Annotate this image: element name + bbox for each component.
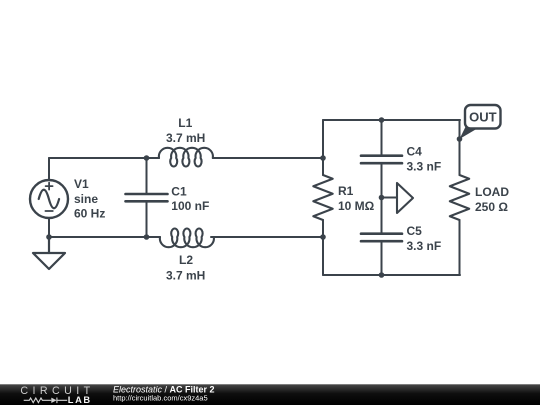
wire V1 bottom lead: [48, 218, 50, 237]
wire top-middle segment: [213, 157, 323, 159]
svg-text:V1: V1: [74, 177, 89, 191]
wire bottom-left segment: [49, 236, 160, 238]
capacitor C5: [361, 234, 402, 242]
footer bar: [0, 384, 540, 405]
capacitor C4: [361, 156, 402, 164]
node at C4 top rail: [379, 117, 385, 123]
svg-text:R1: R1: [338, 184, 354, 198]
svg-text:OUT: OUT: [469, 109, 497, 124]
wire C4 C5 branch: [381, 120, 383, 275]
svg-text:L2: L2: [179, 253, 193, 267]
wire top-left segment: [49, 157, 159, 159]
node at ground junction: [46, 234, 52, 240]
svg-text:L1: L1: [178, 116, 192, 130]
wire probe lead: [382, 197, 398, 199]
svg-text:sine: sine: [74, 192, 98, 206]
wire top rail: [323, 119, 460, 121]
logo diode arrow: [51, 398, 56, 403]
inductor L1: [159, 148, 213, 167]
inductor L2: [160, 229, 214, 248]
svg-text:3.7 mH: 3.7 mH: [166, 131, 205, 145]
node at C1 top: [144, 155, 150, 161]
capacitor C1: [126, 194, 168, 201]
logo resistor-diode line: [24, 398, 67, 404]
wire bottom rail: [323, 274, 460, 276]
svg-text:LAB: LAB: [68, 395, 92, 405]
wire V1 top lead: [48, 158, 50, 180]
node at probe junction: [379, 195, 385, 201]
voltage source V1 body: [30, 180, 68, 218]
svg-text:3.3 nF: 3.3 nF: [407, 160, 442, 174]
svg-text:LOAD: LOAD: [475, 185, 509, 199]
wire R1 branch: [322, 120, 324, 275]
svg-text:http://circuitlab.com/cx9z4a5: http://circuitlab.com/cx9z4a5: [113, 394, 208, 403]
svg-text:3.3 nF: 3.3 nF: [407, 239, 442, 253]
node at OUT: [457, 136, 463, 142]
svg-text:C1: C1: [171, 185, 187, 199]
node at R1 bottom: [320, 234, 326, 240]
wire C1 branch: [146, 158, 148, 237]
svg-text:10 MΩ: 10 MΩ: [338, 199, 375, 213]
svg-text:3.7 mH: 3.7 mH: [166, 268, 205, 282]
ground: [33, 237, 65, 269]
svg-text:250 Ω: 250 Ω: [475, 200, 508, 214]
flag OUT: [460, 105, 501, 139]
svg-text:C4: C4: [407, 144, 423, 158]
node at C5 bottom rail: [379, 272, 385, 278]
wire bottom-middle segment: [211, 236, 323, 238]
svg-text:100 nF: 100 nF: [171, 199, 209, 213]
node at R1 top: [320, 155, 326, 161]
probe buffer triangle: [397, 183, 413, 213]
node at C1 bottom: [144, 234, 150, 240]
resistor R1: [313, 175, 332, 220]
svg-text:60 Hz: 60 Hz: [74, 207, 105, 221]
wire LOAD branch: [459, 120, 461, 275]
svg-text:C5: C5: [407, 224, 423, 238]
resistor LOAD: [450, 175, 469, 220]
